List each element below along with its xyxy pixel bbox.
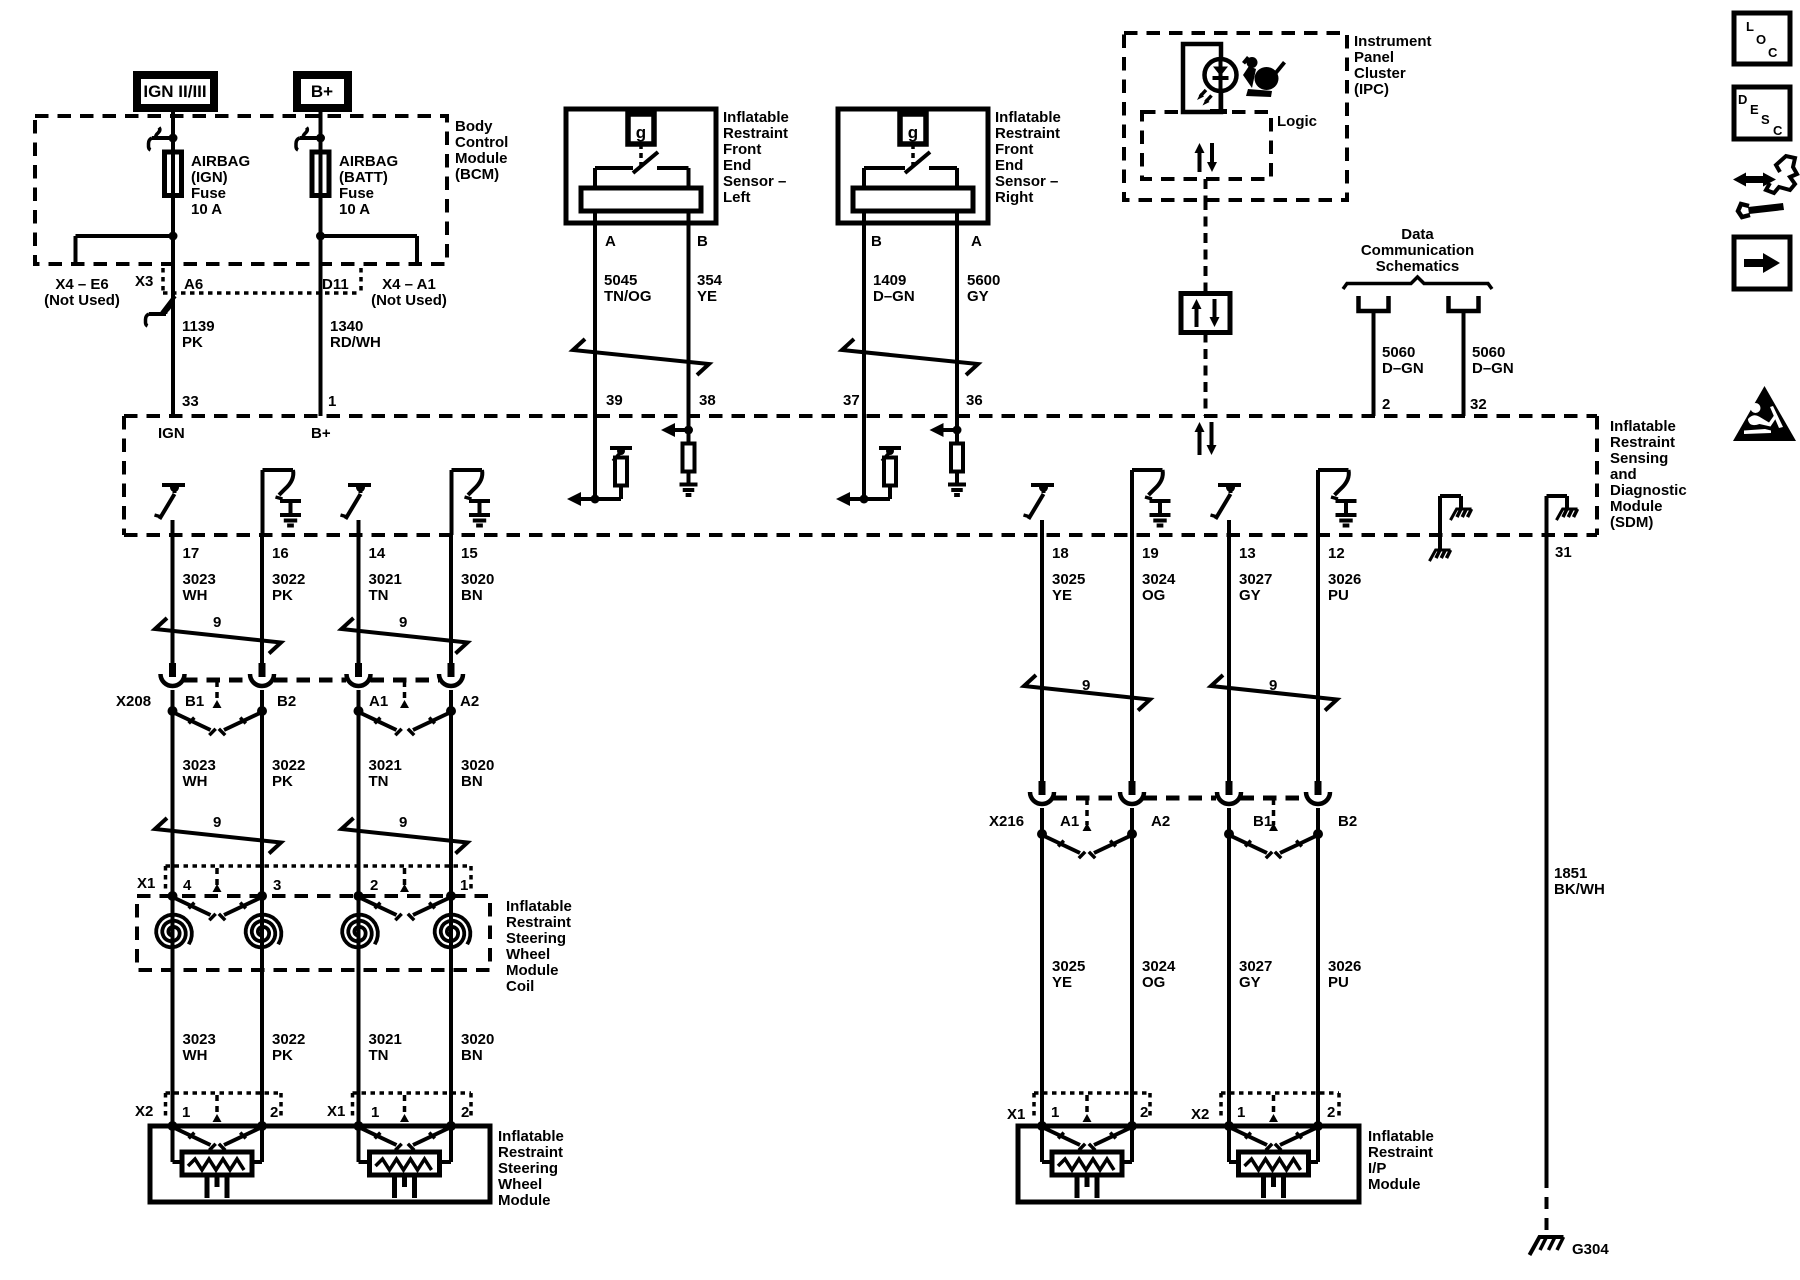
- svg-text:GY: GY: [967, 288, 989, 305]
- svg-text:3026: 3026: [1328, 571, 1361, 588]
- svg-text:Wheel: Wheel: [498, 1176, 542, 1193]
- svg-text:3022: 3022: [272, 1031, 305, 1048]
- svg-text:B2: B2: [1338, 813, 1357, 830]
- svg-text:Data: Data: [1401, 226, 1434, 243]
- svg-text:Instrument: Instrument: [1354, 33, 1432, 50]
- svg-text:Sensor –: Sensor –: [723, 173, 786, 190]
- svg-text:19: 19: [1142, 545, 1159, 562]
- svg-text:O: O: [1756, 32, 1766, 47]
- svg-text:1851: 1851: [1554, 865, 1587, 882]
- svg-text:1409: 1409: [873, 272, 906, 289]
- svg-text:9: 9: [213, 614, 221, 631]
- svg-text:1: 1: [1237, 1104, 1245, 1121]
- svg-text:Steering: Steering: [506, 930, 566, 947]
- svg-text:3023: 3023: [183, 757, 216, 774]
- svg-text:5060: 5060: [1472, 344, 1505, 361]
- svg-text:X4 – E6: X4 – E6: [55, 276, 108, 293]
- svg-text:A6: A6: [184, 276, 203, 293]
- svg-text:BN: BN: [461, 773, 483, 790]
- svg-text:X216: X216: [989, 813, 1024, 830]
- svg-text:B2: B2: [277, 693, 296, 710]
- svg-text:3026: 3026: [1328, 958, 1361, 975]
- svg-text:C: C: [1773, 123, 1783, 138]
- svg-text:Diagnostic: Diagnostic: [1610, 482, 1687, 499]
- svg-text:Inflatable: Inflatable: [995, 109, 1061, 126]
- svg-text:Cluster: Cluster: [1354, 65, 1406, 82]
- svg-text:X208: X208: [116, 693, 151, 710]
- svg-text:PK: PK: [182, 334, 203, 351]
- svg-text:Coil: Coil: [506, 978, 534, 995]
- svg-text:B1: B1: [185, 693, 204, 710]
- svg-text:WH: WH: [183, 773, 208, 790]
- svg-text:I/P: I/P: [1368, 1160, 1386, 1177]
- svg-text:1340: 1340: [330, 318, 363, 335]
- svg-text:14: 14: [369, 545, 386, 562]
- svg-text:PU: PU: [1328, 974, 1349, 991]
- svg-text:3025: 3025: [1052, 571, 1085, 588]
- svg-text:3027: 3027: [1239, 571, 1272, 588]
- svg-text:3021: 3021: [369, 757, 402, 774]
- svg-text:Inflatable: Inflatable: [498, 1128, 564, 1145]
- svg-text:Restraint: Restraint: [723, 125, 788, 142]
- svg-text:18: 18: [1052, 545, 1069, 562]
- svg-text:Module: Module: [506, 962, 559, 979]
- svg-text:5045: 5045: [604, 272, 637, 289]
- svg-text:32: 32: [1470, 396, 1487, 413]
- svg-text:B+: B+: [311, 425, 331, 442]
- svg-text:S: S: [1761, 112, 1770, 127]
- svg-text:TN: TN: [369, 773, 389, 790]
- svg-text:Communication: Communication: [1361, 242, 1474, 259]
- svg-text:X1: X1: [137, 875, 155, 892]
- svg-text:38: 38: [699, 392, 716, 409]
- svg-text:Steering: Steering: [498, 1160, 558, 1177]
- svg-text:Inflatable: Inflatable: [723, 109, 789, 126]
- svg-text:D: D: [1738, 92, 1747, 107]
- svg-text:WH: WH: [183, 587, 208, 604]
- svg-text:1: 1: [371, 1104, 379, 1121]
- svg-text:3022: 3022: [272, 571, 305, 588]
- svg-text:BN: BN: [461, 587, 483, 604]
- svg-text:Inflatable: Inflatable: [1368, 1128, 1434, 1145]
- svg-text:X2: X2: [1191, 1106, 1209, 1123]
- svg-text:PK: PK: [272, 587, 293, 604]
- svg-text:g: g: [908, 123, 918, 142]
- svg-text:Sensor –: Sensor –: [995, 173, 1058, 190]
- svg-text:D–GN: D–GN: [873, 288, 915, 305]
- svg-text:B: B: [697, 233, 708, 250]
- svg-text:A: A: [971, 233, 982, 250]
- svg-text:YE: YE: [1052, 974, 1072, 991]
- svg-text:3020: 3020: [461, 757, 494, 774]
- svg-text:Front: Front: [995, 141, 1033, 158]
- svg-text:9: 9: [399, 814, 407, 831]
- svg-text:Wheel: Wheel: [506, 946, 550, 963]
- svg-text:Fuse: Fuse: [191, 185, 226, 202]
- svg-text:GY: GY: [1239, 974, 1261, 991]
- svg-text:(BCM): (BCM): [455, 166, 499, 183]
- svg-text:TN: TN: [369, 1047, 389, 1064]
- svg-text:B1: B1: [1253, 813, 1272, 830]
- svg-text:Body: Body: [455, 118, 493, 135]
- svg-text:GY: GY: [1239, 587, 1261, 604]
- svg-text:RD/WH: RD/WH: [330, 334, 381, 351]
- svg-text:2: 2: [370, 877, 378, 894]
- svg-text:AIRBAG: AIRBAG: [339, 153, 398, 170]
- svg-text:9: 9: [213, 814, 221, 831]
- svg-text:31: 31: [1555, 544, 1572, 561]
- svg-text:3023: 3023: [183, 571, 216, 588]
- svg-text:(BATT): (BATT): [339, 169, 388, 186]
- svg-text:1: 1: [1051, 1104, 1059, 1121]
- svg-text:Module: Module: [455, 150, 508, 167]
- svg-text:3025: 3025: [1052, 958, 1085, 975]
- svg-text:9: 9: [1269, 677, 1277, 694]
- svg-text:PU: PU: [1328, 587, 1349, 604]
- svg-text:YE: YE: [1052, 587, 1072, 604]
- svg-text:1139: 1139: [182, 318, 215, 335]
- svg-text:YE: YE: [697, 288, 717, 305]
- svg-text:2: 2: [270, 1104, 278, 1121]
- svg-text:3021: 3021: [369, 571, 402, 588]
- svg-text:Restraint: Restraint: [506, 914, 571, 931]
- svg-text:2: 2: [1382, 396, 1390, 413]
- svg-text:1: 1: [460, 877, 468, 894]
- svg-text:Inflatable: Inflatable: [1610, 418, 1676, 435]
- svg-text:3024: 3024: [1142, 571, 1176, 588]
- svg-text:3020: 3020: [461, 571, 494, 588]
- svg-text:B+: B+: [311, 82, 333, 101]
- svg-text:E: E: [1750, 102, 1759, 117]
- svg-text:15: 15: [461, 545, 478, 562]
- svg-text:3021: 3021: [369, 1031, 402, 1048]
- svg-text:OG: OG: [1142, 974, 1165, 991]
- svg-text:BN: BN: [461, 1047, 483, 1064]
- svg-text:Logic: Logic: [1277, 113, 1317, 130]
- svg-text:36: 36: [966, 392, 983, 409]
- svg-text:9: 9: [399, 614, 407, 631]
- svg-text:Restraint: Restraint: [1610, 434, 1675, 451]
- svg-text:OG: OG: [1142, 587, 1165, 604]
- svg-text:D11: D11: [322, 276, 349, 293]
- svg-text:Module: Module: [498, 1192, 551, 1209]
- svg-text:Restraint: Restraint: [1368, 1144, 1433, 1161]
- svg-text:A1: A1: [369, 693, 388, 710]
- svg-text:BK/WH: BK/WH: [1554, 881, 1605, 898]
- svg-text:A2: A2: [1151, 813, 1170, 830]
- svg-text:Restraint: Restraint: [498, 1144, 563, 1161]
- svg-text:2: 2: [1140, 1104, 1148, 1121]
- svg-text:A1: A1: [1060, 813, 1079, 830]
- svg-text:L: L: [1746, 19, 1754, 34]
- svg-text:5600: 5600: [967, 272, 1000, 289]
- svg-text:Fuse: Fuse: [339, 185, 374, 202]
- svg-text:3020: 3020: [461, 1031, 494, 1048]
- svg-text:C: C: [1768, 45, 1778, 60]
- svg-text:TN/OG: TN/OG: [604, 288, 652, 305]
- svg-text:9: 9: [1082, 677, 1090, 694]
- svg-text:3023: 3023: [183, 1031, 216, 1048]
- svg-text:Schematics: Schematics: [1376, 258, 1459, 275]
- svg-text:X1: X1: [327, 1103, 345, 1120]
- svg-text:Control: Control: [455, 134, 508, 151]
- svg-text:1: 1: [182, 1104, 190, 1121]
- svg-text:(Not Used): (Not Used): [371, 292, 447, 309]
- svg-text:1: 1: [328, 393, 336, 410]
- svg-text:AIRBAG: AIRBAG: [191, 153, 250, 170]
- svg-text:Sensing: Sensing: [1610, 450, 1668, 467]
- svg-text:IGN II/III: IGN II/III: [143, 82, 206, 101]
- svg-text:Right: Right: [995, 189, 1033, 206]
- svg-text:3: 3: [273, 877, 281, 894]
- svg-text:2: 2: [461, 1104, 469, 1121]
- svg-text:Module: Module: [1610, 498, 1663, 515]
- svg-text:G304: G304: [1572, 1241, 1609, 1258]
- svg-text:Front: Front: [723, 141, 761, 158]
- svg-text:3027: 3027: [1239, 958, 1272, 975]
- svg-text:Left: Left: [723, 189, 751, 206]
- svg-text:12: 12: [1328, 545, 1345, 562]
- svg-text:3022: 3022: [272, 757, 305, 774]
- svg-text:4: 4: [183, 877, 192, 894]
- svg-text:(IPC): (IPC): [1354, 81, 1389, 98]
- svg-text:10 A: 10 A: [339, 201, 370, 218]
- svg-text:17: 17: [183, 545, 200, 562]
- svg-text:Module: Module: [1368, 1176, 1421, 1193]
- svg-text:33: 33: [182, 393, 199, 410]
- svg-text:(Not Used): (Not Used): [44, 292, 120, 309]
- svg-text:D–GN: D–GN: [1472, 360, 1514, 377]
- svg-text:WH: WH: [183, 1047, 208, 1064]
- svg-text:B: B: [871, 233, 882, 250]
- svg-text:Restraint: Restraint: [995, 125, 1060, 142]
- svg-text:IGN: IGN: [158, 425, 185, 442]
- svg-text:D–GN: D–GN: [1382, 360, 1424, 377]
- svg-text:and: and: [1610, 466, 1637, 483]
- svg-text:X4 – A1: X4 – A1: [382, 276, 436, 293]
- svg-text:(IGN): (IGN): [191, 169, 228, 186]
- svg-text:37: 37: [843, 392, 860, 409]
- svg-text:X2: X2: [135, 1103, 153, 1120]
- svg-text:Inflatable: Inflatable: [506, 898, 572, 915]
- svg-text:End: End: [995, 157, 1023, 174]
- svg-text:TN: TN: [369, 587, 389, 604]
- svg-text:10 A: 10 A: [191, 201, 222, 218]
- svg-text:g: g: [636, 123, 646, 142]
- svg-text:354: 354: [697, 272, 723, 289]
- svg-text:X1: X1: [1007, 1106, 1025, 1123]
- svg-text:PK: PK: [272, 773, 293, 790]
- svg-text:2: 2: [1327, 1104, 1335, 1121]
- svg-text:3024: 3024: [1142, 958, 1176, 975]
- svg-text:A2: A2: [460, 693, 479, 710]
- svg-text:X3: X3: [135, 273, 153, 290]
- svg-text:(SDM): (SDM): [1610, 514, 1653, 531]
- svg-text:End: End: [723, 157, 751, 174]
- svg-text:PK: PK: [272, 1047, 293, 1064]
- svg-text:Panel: Panel: [1354, 49, 1394, 66]
- svg-text:5060: 5060: [1382, 344, 1415, 361]
- svg-text:16: 16: [272, 545, 289, 562]
- svg-text:39: 39: [606, 392, 623, 409]
- svg-text:13: 13: [1239, 545, 1256, 562]
- svg-text:A: A: [605, 233, 616, 250]
